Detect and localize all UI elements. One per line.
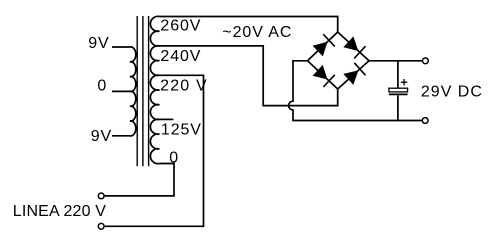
svg-text:0: 0 bbox=[169, 150, 178, 167]
terminal LINEA lower (220V tap) bbox=[98, 223, 104, 229]
svg-text:260V: 260V bbox=[160, 17, 201, 34]
svg-text:220 V: 220 V bbox=[160, 78, 208, 95]
diode D1 (left vertex to top vertex) bbox=[313, 34, 335, 56]
wire 125V tap stub bbox=[159, 118, 173, 120]
wire primary lead 0 mid tap bbox=[112, 90, 130, 92]
wire 240V tap to bridge AC bottom bbox=[159, 46, 337, 106]
wire 260V tap to bridge AC top bbox=[159, 17, 337, 33]
transformer T1 core bbox=[137, 16, 148, 166]
wire DC minus rail with crossover hop bbox=[289, 61, 422, 121]
transformer T1 secondary winding bbox=[150, 16, 159, 163]
terminal LINEA upper (0 tap) bbox=[98, 193, 104, 199]
svg-text:~20V AC: ~20V AC bbox=[222, 24, 292, 41]
svg-text:9V: 9V bbox=[88, 35, 109, 52]
wire DC plus rail bbox=[369, 60, 422, 62]
diode D2 (top vertex to right vertex) bbox=[343, 36, 365, 58]
terminal DC output minus bbox=[422, 118, 428, 124]
svg-text:29V DC: 29V DC bbox=[421, 83, 483, 100]
bridge rectifier diamond bbox=[308, 32, 370, 89]
diode D3 (left vertex to bottom vertex) bbox=[313, 65, 335, 87]
terminal DC output plus bbox=[423, 58, 429, 64]
capacitor C1 (polarized, filter) bbox=[389, 88, 408, 94]
wire capacitor leads bbox=[397, 61, 399, 121]
svg-text:125V: 125V bbox=[161, 122, 202, 139]
svg-text:LINEA 220 V: LINEA 220 V bbox=[13, 203, 106, 220]
svg-text:0: 0 bbox=[97, 78, 106, 95]
svg-text:240V: 240V bbox=[160, 48, 201, 65]
transformer T1 primary winding bbox=[130, 47, 136, 136]
svg-text:9V: 9V bbox=[91, 128, 112, 145]
capacitor C1 plus polarity mark bbox=[401, 79, 407, 85]
wire 0 tap to upper LINEA terminal bbox=[105, 164, 174, 196]
wire primary lead 9V top bbox=[112, 46, 130, 48]
wire primary lead 9V bottom bbox=[112, 135, 130, 137]
wire 220V tap to lower LINEA terminal bbox=[105, 75, 204, 226]
diode D4 (bottom vertex to right vertex) bbox=[343, 63, 365, 85]
